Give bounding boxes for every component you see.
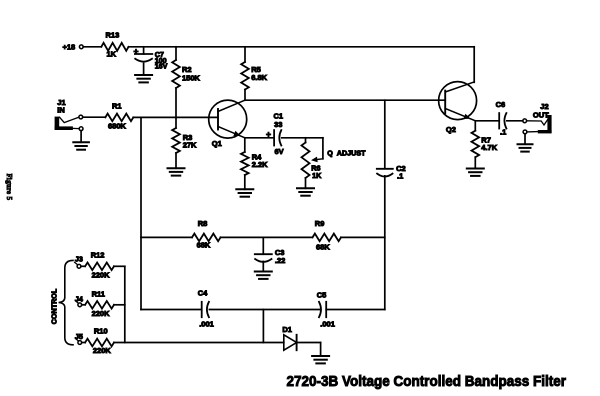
svg-text:16V: 16V [155, 62, 168, 71]
svg-text:.001: .001 [199, 320, 214, 329]
svg-text:+: + [266, 129, 271, 139]
svg-text:C5: C5 [317, 291, 327, 300]
svg-text:6.8K: 6.8K [251, 73, 267, 82]
svg-text:R13: R13 [106, 31, 120, 40]
svg-text:J3: J3 [75, 254, 83, 263]
svg-text:Q ADJUST: Q ADJUST [327, 148, 366, 157]
svg-text:68K: 68K [316, 243, 330, 252]
svg-text:R11: R11 [92, 289, 105, 298]
svg-text:IN: IN [57, 105, 65, 114]
svg-text:4.7K: 4.7K [481, 143, 497, 152]
svg-text:J4: J4 [75, 295, 83, 304]
svg-text:Q2: Q2 [446, 125, 456, 134]
svg-text:C4: C4 [198, 289, 208, 298]
svg-text:1K: 1K [107, 50, 117, 59]
svg-text:220K: 220K [93, 346, 112, 355]
svg-text:R10: R10 [94, 326, 108, 335]
svg-text:680K: 680K [108, 122, 127, 131]
svg-text:Figure 5: Figure 5 [5, 174, 13, 201]
svg-text:.1: .1 [500, 128, 506, 137]
svg-text:OUT: OUT [533, 110, 549, 119]
svg-text:R8: R8 [198, 219, 208, 228]
svg-text:2.2K: 2.2K [252, 160, 268, 169]
svg-text:220K: 220K [92, 271, 111, 280]
svg-text:C6: C6 [496, 100, 506, 109]
svg-text:J5: J5 [75, 332, 83, 341]
svg-text:1K: 1K [312, 171, 322, 180]
svg-text:.001: .001 [320, 319, 335, 328]
svg-text:C1: C1 [274, 111, 284, 120]
svg-text:33: 33 [274, 120, 282, 129]
svg-text:D1: D1 [282, 325, 292, 334]
svg-text:CONTROL: CONTROL [50, 288, 59, 324]
svg-text:+: + [134, 46, 139, 56]
svg-text:.22: .22 [275, 256, 285, 265]
svg-text:R12: R12 [91, 251, 105, 260]
svg-text:2720-3B Voltage Controlled Ban: 2720-3B Voltage Controlled Bandpass Filt… [287, 373, 567, 390]
svg-text:Q1: Q1 [212, 139, 222, 148]
svg-text:150K: 150K [182, 73, 201, 82]
svg-text:68K: 68K [197, 241, 211, 250]
svg-text:6V: 6V [275, 147, 284, 156]
svg-text:.1: .1 [397, 171, 403, 180]
svg-text:R9: R9 [315, 219, 325, 228]
svg-text:R1: R1 [112, 101, 122, 110]
svg-text:+18: +18 [63, 42, 76, 51]
svg-text:220K: 220K [92, 309, 111, 318]
svg-text:27K: 27K [183, 141, 197, 150]
